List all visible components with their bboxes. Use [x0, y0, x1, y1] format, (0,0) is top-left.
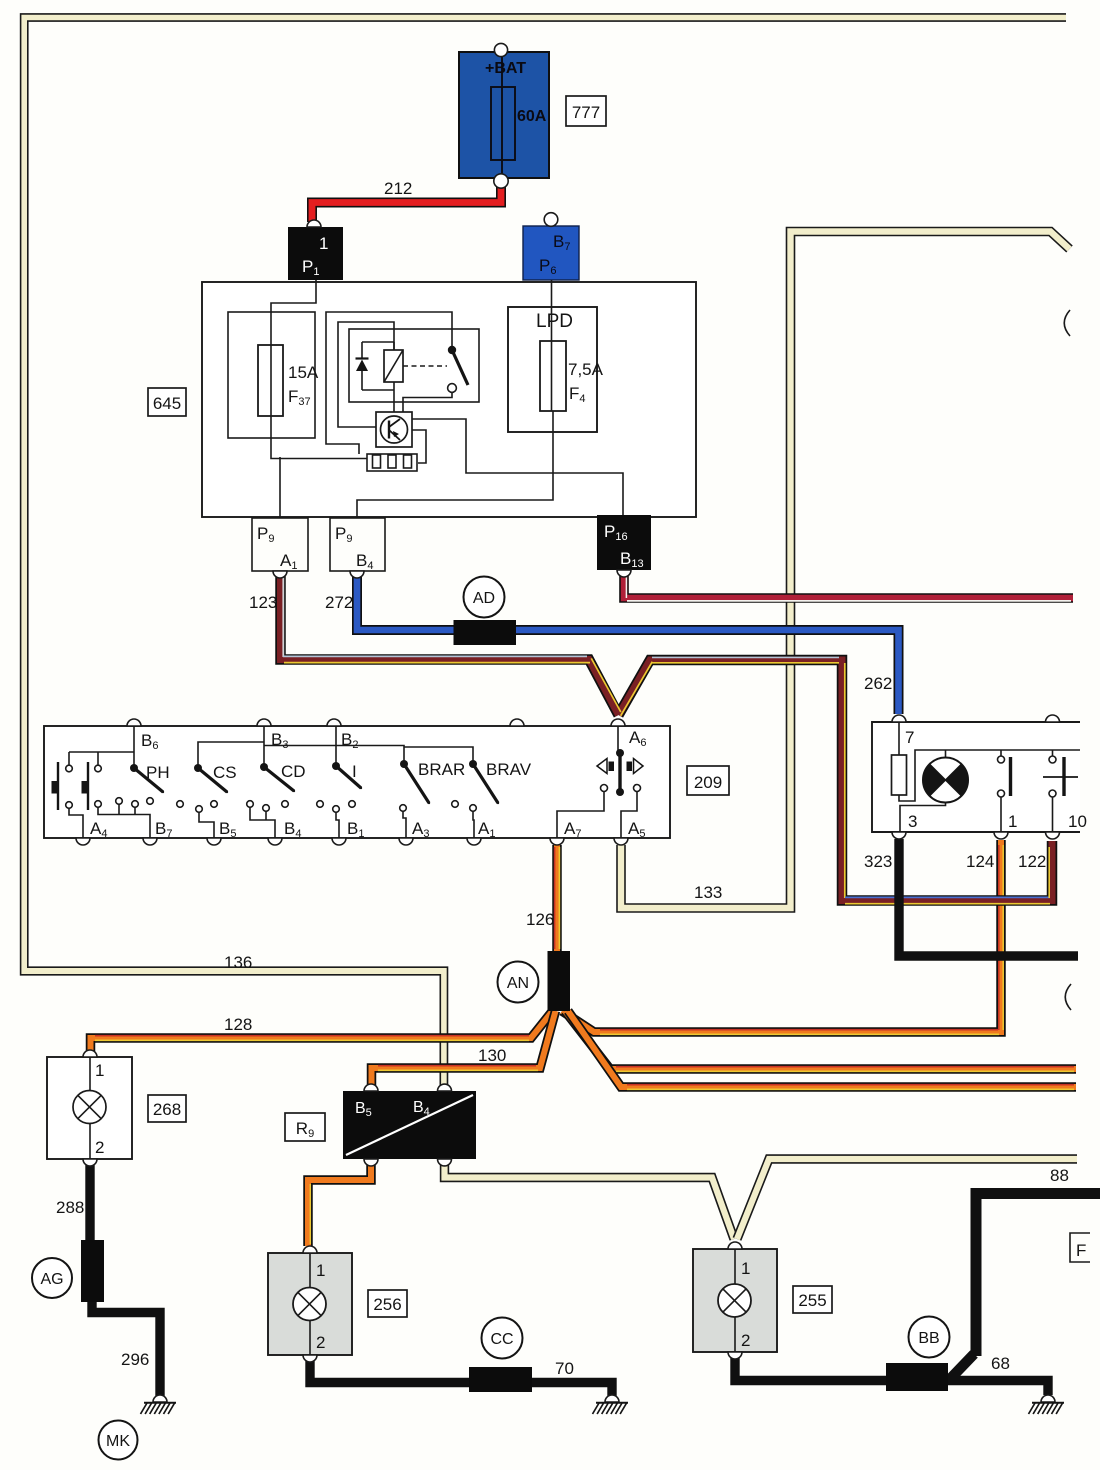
svg-text:1: 1 [319, 234, 328, 253]
svg-text:MK: MK [106, 1433, 130, 1450]
svg-text:AG: AG [40, 1271, 63, 1288]
svg-text:130: 130 [478, 1046, 506, 1065]
svg-text:AD: AD [473, 590, 495, 607]
svg-text:F: F [1076, 1241, 1086, 1260]
svg-text:2: 2 [95, 1138, 104, 1157]
svg-text:209: 209 [694, 773, 722, 792]
svg-text:7: 7 [905, 728, 914, 747]
svg-text:128: 128 [224, 1015, 252, 1034]
svg-text:CD: CD [281, 762, 306, 781]
svg-text:296: 296 [121, 1350, 149, 1369]
svg-text:122: 122 [1018, 852, 1046, 871]
svg-text:BRAR: BRAR [418, 760, 465, 779]
svg-text:255: 255 [798, 1291, 826, 1310]
svg-text:1: 1 [1008, 812, 1017, 831]
svg-text:262: 262 [864, 674, 892, 693]
svg-text:BRAV: BRAV [486, 760, 532, 779]
svg-text:CS: CS [213, 763, 237, 782]
svg-text:212: 212 [384, 179, 412, 198]
svg-text:2: 2 [741, 1331, 750, 1350]
svg-text:777: 777 [572, 103, 600, 122]
svg-text:272: 272 [325, 593, 353, 612]
svg-text:1: 1 [316, 1261, 325, 1280]
svg-text:1: 1 [95, 1061, 104, 1080]
svg-text:70: 70 [555, 1359, 574, 1378]
svg-text:3: 3 [908, 812, 917, 831]
svg-text:124: 124 [966, 852, 994, 871]
svg-text:BB: BB [918, 1330, 939, 1347]
svg-text:323: 323 [864, 852, 892, 871]
svg-text:10: 10 [1068, 812, 1087, 831]
svg-text:123: 123 [249, 593, 277, 612]
svg-text:2: 2 [316, 1333, 325, 1352]
svg-text:126: 126 [526, 910, 554, 929]
svg-text:15A: 15A [288, 363, 319, 382]
svg-text:60A: 60A [517, 108, 547, 125]
svg-text:1: 1 [741, 1259, 750, 1278]
svg-text:288: 288 [56, 1198, 84, 1217]
svg-text:133: 133 [694, 883, 722, 902]
svg-text:CC: CC [490, 1331, 513, 1348]
svg-text:LPD: LPD [536, 311, 573, 332]
svg-text:I: I [352, 762, 357, 781]
svg-text:268: 268 [153, 1100, 181, 1119]
svg-text:7,5A: 7,5A [568, 360, 604, 379]
svg-text:AN: AN [507, 975, 529, 992]
svg-text:68: 68 [991, 1354, 1010, 1373]
svg-text:136: 136 [224, 953, 252, 972]
svg-text:256: 256 [373, 1295, 401, 1314]
svg-text:+BAT: +BAT [485, 60, 526, 77]
svg-text:645: 645 [153, 394, 181, 413]
svg-text:88: 88 [1050, 1166, 1069, 1185]
